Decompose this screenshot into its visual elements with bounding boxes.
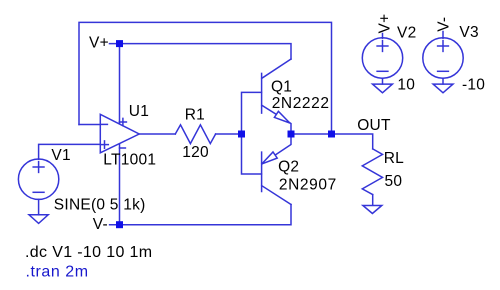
wire emitter node to OUT xyxy=(291,133,332,135)
voltage source V1 xyxy=(18,159,58,215)
svg-text:LT1001: LT1001 xyxy=(103,151,156,168)
wire V+ rail xyxy=(110,44,292,59)
svg-text:-10: -10 xyxy=(462,76,485,93)
resistor R1 xyxy=(175,125,215,144)
voltage source V3 xyxy=(423,32,463,85)
wire base bus xyxy=(242,92,262,174)
svg-text:2N2907: 2N2907 xyxy=(279,177,337,194)
wire op-amp V+ power pin xyxy=(119,44,121,123)
svg-text:V2: V2 xyxy=(397,24,416,41)
junction emitter node xyxy=(288,131,295,138)
svg-text:V-: V- xyxy=(435,17,452,32)
svg-text:50: 50 xyxy=(385,173,403,190)
svg-text:2N2222: 2N2222 xyxy=(272,95,330,112)
svg-text:R1: R1 xyxy=(185,106,205,123)
ground under V2 xyxy=(373,84,393,93)
wire op-amp output to R1 xyxy=(139,133,175,135)
svg-text:V+: V+ xyxy=(376,14,393,34)
wire op-amp V- power pin xyxy=(119,144,121,225)
op-amp input minus glyph xyxy=(102,123,108,125)
voltage source V2 xyxy=(362,34,402,85)
op-amp input plus glyph xyxy=(101,141,109,148)
svg-text:120: 120 xyxy=(182,144,209,161)
op-amp power minus glyph xyxy=(120,147,126,149)
ground under V3 xyxy=(433,84,453,93)
svg-text:RL: RL xyxy=(384,150,404,167)
wire OUT to RL xyxy=(332,134,373,149)
svg-text:V3: V3 xyxy=(459,24,478,41)
junction OUT node xyxy=(328,131,335,138)
svg-text:10: 10 xyxy=(397,76,415,93)
svg-text:OUT: OUT xyxy=(357,117,391,134)
op-amp power plus glyph xyxy=(119,118,126,125)
transistor Q1 xyxy=(262,59,291,134)
svg-text:Q1: Q1 xyxy=(271,78,292,95)
transistor Q2 xyxy=(262,134,291,205)
svg-text:.dc V1 -10 10 1m: .dc V1 -10 10 1m xyxy=(25,244,152,261)
resistor RL xyxy=(362,149,382,195)
junction V+ xyxy=(116,40,123,47)
svg-text:V-: V- xyxy=(93,216,108,233)
wire R1 to base node xyxy=(216,133,242,135)
wire V1 to non-inverting input xyxy=(39,144,100,159)
op-amp U1 triangle xyxy=(100,114,139,153)
svg-text:Q2: Q2 xyxy=(278,159,299,176)
svg-text:V+: V+ xyxy=(89,35,109,52)
wire feedback loop: OUT to inverting input xyxy=(79,22,332,134)
ground under RL xyxy=(363,206,382,214)
junction V- xyxy=(116,221,123,228)
svg-text:.tran 2m: .tran 2m xyxy=(26,264,89,281)
svg-text:V1: V1 xyxy=(51,147,70,164)
svg-text:SINE(0 5 1k): SINE(0 5 1k) xyxy=(54,197,146,214)
svg-text:U1: U1 xyxy=(129,103,149,120)
junction base node xyxy=(238,131,245,138)
ground under V1 xyxy=(29,215,48,224)
wire V- rail xyxy=(110,205,291,225)
wire RL to ground xyxy=(372,195,374,206)
wire inverting input stub xyxy=(79,124,100,126)
